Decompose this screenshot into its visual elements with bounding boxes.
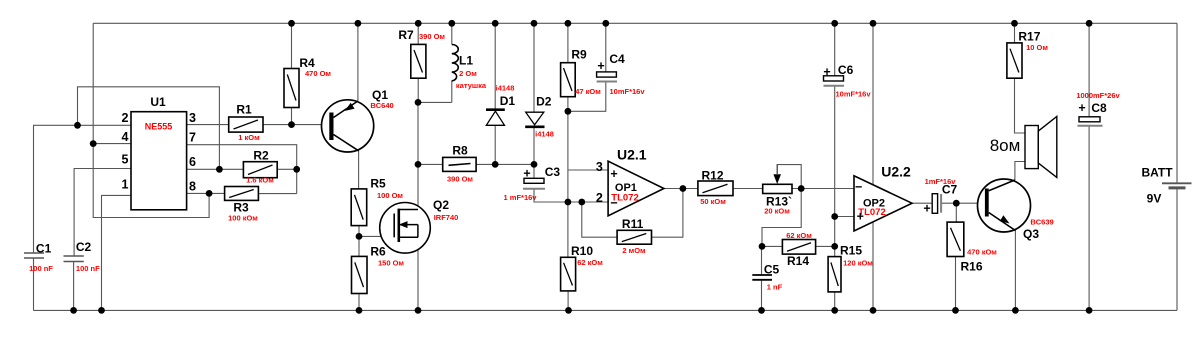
capacitor C4 [597, 72, 617, 82]
junction D2 C3 [531, 161, 538, 168]
resistor R3 [225, 187, 259, 201]
junction R7 top [415, 20, 422, 27]
resistor R6 [352, 256, 368, 293]
svg-text:100 nF: 100 nF [29, 264, 53, 273]
wire R9 vertical chain [567, 23, 569, 257]
svg-text:1000mF*26v: 1000mF*26v [1076, 91, 1120, 100]
junction R7 L1 bottom [415, 99, 422, 106]
wire C6 to plus input to R15 [835, 23, 854, 256]
junction R4 top [288, 20, 295, 27]
svg-text:U2.1: U2.1 [617, 147, 647, 163]
wire pin3 to R1 to Q1 base [187, 124, 331, 126]
junction R15 ground [831, 307, 838, 314]
speaker 8 ohm [1025, 116, 1057, 177]
wire R17 leads to speaker [1015, 23, 1026, 133]
svg-text:2: 2 [596, 191, 603, 205]
wire R13 down to R14 [762, 189, 801, 247]
op-amp U2.2 OP2 [854, 176, 912, 231]
svg-text:+: + [610, 167, 617, 181]
svg-text:R8: R8 [452, 144, 468, 158]
svg-text:+: + [823, 65, 830, 79]
svg-text:5: 5 [122, 153, 129, 167]
wire Q2 drain chain [417, 102, 419, 209]
svg-text:BC640: BC640 [370, 101, 393, 110]
svg-text:47 кОм: 47 кОм [575, 87, 601, 96]
svg-text:+: + [523, 167, 530, 181]
svg-text:+: + [923, 202, 930, 216]
svg-text:R1: R1 [236, 103, 252, 117]
wire Q1 emitter to rail [357, 23, 359, 101]
junction supply top [870, 20, 877, 27]
svg-text:9V: 9V [1147, 192, 1162, 206]
wire C1 branch and U1 pin2 line [34, 125, 132, 310]
svg-text:50 кОм: 50 кОм [700, 197, 726, 206]
junction Q1 emitter top [355, 20, 362, 27]
svg-text:U1: U1 [150, 95, 166, 109]
svg-text:1 mF*16v: 1 mF*16v [504, 193, 538, 202]
wire L1 leads [418, 23, 452, 102]
resistor R9 [561, 63, 576, 97]
junction pin6 tie [216, 166, 223, 173]
svg-text:R3: R3 [233, 201, 249, 215]
potentiometer R13 [763, 165, 792, 194]
junction R14 R15 [831, 243, 838, 250]
svg-text:3: 3 [596, 160, 603, 174]
wire right branch to battery [1176, 23, 1178, 310]
capacitor C5 [752, 275, 772, 280]
svg-text:150 Ом: 150 Ом [378, 259, 404, 268]
junction C6 top [831, 20, 838, 27]
wire R6 to ground [358, 294, 360, 311]
svg-text:NE555: NE555 [145, 122, 173, 132]
IC U1 NE555 body [131, 112, 187, 210]
wire Q2 source to ground [417, 237, 419, 310]
svg-text:10mF*16v: 10mF*16v [835, 90, 871, 99]
svg-text:7: 7 [189, 130, 196, 144]
wire pin6 stub [187, 168, 244, 170]
svg-text:C2: C2 [76, 240, 92, 254]
svg-text:1mF*16v: 1mF*16v [925, 177, 957, 186]
svg-text:8ом: 8ом [990, 136, 1021, 155]
svg-text:Q3: Q3 [1023, 227, 1039, 241]
junction C8 top [1086, 20, 1093, 27]
wire R14 leads [762, 245, 835, 247]
svg-text:+: + [1078, 101, 1085, 115]
wire pin8 stub [187, 192, 225, 194]
svg-text:62 кОм: 62 кОм [577, 258, 603, 267]
junction R6 ground [356, 307, 363, 314]
capacitor C3 [523, 178, 545, 189]
svg-text:IRF740: IRF740 [434, 213, 459, 222]
svg-text:U2.2: U2.2 [881, 164, 911, 180]
svg-text:Q1: Q1 [372, 88, 388, 102]
svg-text:R4: R4 [299, 56, 315, 70]
op-amp U2.1 OP1 [608, 161, 664, 216]
svg-text:10mF*16v: 10mF*16v [609, 87, 645, 96]
wire R8 leads [418, 163, 534, 165]
junction Q2 source ground [415, 307, 422, 314]
wire C3 leads and U2.1 pin2 line [534, 164, 608, 202]
wire pin2 to pin6 tie route [78, 87, 220, 170]
resistor R12 [698, 181, 733, 196]
junction R9 top [565, 20, 572, 27]
junction U2.2 plus input [831, 213, 838, 220]
svg-text:R9: R9 [571, 48, 587, 62]
junction D1 bottom [492, 161, 499, 168]
junction R10 ground [565, 307, 572, 314]
junction pin2 tie [74, 122, 81, 129]
svg-text:BATT: BATT [1141, 166, 1173, 180]
resistor R16 [947, 222, 964, 256]
svg-text:R6: R6 [370, 245, 386, 259]
resistor R1 [229, 117, 263, 132]
svg-text:+: + [597, 59, 604, 73]
svg-text:20 кОм: 20 кОм [764, 207, 790, 216]
transistor Q2 IRF740 [380, 203, 431, 254]
diode D1 i4148 [486, 110, 505, 126]
svg-text:1: 1 [122, 178, 129, 192]
junction C5 ground [758, 307, 765, 314]
svg-text:10 Ом: 10 Ом [1026, 43, 1048, 52]
junction Q3 emitter ground [1012, 307, 1019, 314]
svg-text:C8: C8 [1091, 101, 1107, 115]
svg-text:R10: R10 [571, 244, 593, 258]
wire R16 leads [955, 203, 958, 310]
junction C8 ground [1086, 307, 1093, 314]
wire R7 leads [417, 23, 419, 102]
wire Q1 collector to R5 [358, 151, 360, 189]
svg-text:8: 8 [189, 180, 196, 194]
junction D2 top [531, 20, 538, 27]
svg-text:−: − [855, 180, 862, 194]
svg-text:100 кОм: 100 кОм [228, 214, 258, 223]
junction D1 top [492, 20, 499, 27]
wire pin1 to ground [102, 195, 132, 310]
svg-text:R15: R15 [840, 244, 862, 258]
svg-text:D2: D2 [536, 95, 552, 109]
wire Q3 emitter to ground [1014, 230, 1016, 310]
wire U2.1 pin3 [568, 169, 608, 171]
junction R10 pin2 [565, 199, 572, 206]
junction R16 ground [952, 307, 959, 314]
junction R13 wiper [798, 185, 805, 192]
diode D2 i4148 [525, 112, 544, 127]
junction pin4 [90, 140, 97, 147]
resistor R14 [782, 240, 815, 255]
transistor Q1 BC640 [322, 100, 374, 152]
svg-text:4: 4 [122, 130, 129, 144]
wire U2.1 output to R12 to R13 [664, 188, 762, 190]
junction L1 top [448, 20, 455, 27]
svg-text:R7: R7 [398, 28, 414, 42]
junction R17 top [1011, 20, 1018, 27]
wire C8 leads [1088, 23, 1090, 310]
wire D2 leads [533, 23, 535, 164]
junction C7 R16 [953, 200, 960, 207]
svg-text:i4148: i4148 [535, 130, 554, 139]
resistor R8 [443, 157, 476, 171]
junction R9 C4 [565, 108, 572, 115]
wire R4 leads [291, 23, 293, 124]
svg-text:C6: C6 [838, 63, 854, 77]
svg-text:R2: R2 [253, 149, 269, 163]
svg-text:+: + [857, 210, 864, 224]
wire C5 leads [761, 246, 763, 310]
svg-text:катушка: катушка [456, 81, 487, 90]
svg-text:1 nF: 1 nF [767, 283, 783, 292]
wire R13 wiper route [777, 165, 801, 189]
junction U2.1 output [680, 185, 687, 192]
wire C4 bottom link [568, 23, 606, 111]
junction R8 left [415, 161, 422, 168]
resistor R11 [617, 230, 651, 244]
svg-text:i4148: i4148 [496, 84, 515, 93]
wire R3 right lead [258, 193, 296, 195]
svg-text:R14: R14 [787, 254, 809, 268]
wire U2.2 supply line [872, 23, 874, 310]
svg-text:100 Ом: 100 Ом [377, 191, 403, 200]
wire ground bottom rail [34, 309, 1178, 311]
capacitor C7 [932, 194, 941, 214]
wire R5 to R6 and gate of Q2 [359, 226, 394, 257]
wire pin7 route down [187, 145, 297, 194]
svg-text:C3: C3 [545, 165, 561, 179]
svg-text:390 Ом: 390 Ом [419, 32, 445, 41]
battery BATT 9V [1162, 183, 1192, 188]
capacitor C2 [64, 256, 84, 262]
junction supply ground [870, 307, 877, 314]
resistor R4 [284, 69, 299, 108]
svg-text:−: − [610, 196, 617, 210]
svg-text:R11: R11 [622, 217, 644, 231]
svg-text:100 nF: 100 nF [76, 264, 100, 273]
svg-text:6: 6 [189, 155, 196, 169]
svg-text:470 кОм: 470 кОм [967, 248, 997, 257]
svg-text:390 Ом: 390 Ом [447, 175, 473, 184]
wire R15 to ground [834, 292, 836, 311]
svg-text:C1: C1 [36, 242, 52, 256]
wire D1 leads [494, 23, 496, 164]
wire +9V top rail [93, 22, 1177, 24]
svg-text:62 кОм: 62 кОм [786, 231, 812, 240]
wire R10 to ground [567, 291, 569, 311]
svg-text:C5: C5 [764, 263, 780, 277]
svg-text:R12: R12 [701, 169, 723, 183]
svg-text:3: 3 [189, 111, 196, 125]
svg-text:Q2: Q2 [433, 198, 449, 212]
svg-text:BC639: BC639 [1030, 218, 1053, 227]
svg-text:R17: R17 [1018, 30, 1040, 44]
junction R4 bottom base [288, 121, 295, 128]
svg-text:1.6 кОм: 1.6 кОм [246, 176, 274, 185]
capacitor C8 [1078, 117, 1103, 126]
wire V+ to pin4 and pin8 route [93, 23, 209, 217]
svg-text:120 кОм: 120 кОм [843, 259, 873, 268]
capacitor C1 [24, 253, 44, 258]
svg-text:C4: C4 [609, 52, 625, 66]
svg-text:R16: R16 [960, 260, 982, 274]
svg-text:L1: L1 [459, 54, 473, 68]
junction C5 R14 [759, 243, 766, 250]
wire feedback via R11 [582, 189, 683, 238]
junction pin1 ground [98, 307, 105, 314]
svg-text:R5: R5 [370, 177, 386, 191]
inductor L1 [452, 45, 459, 82]
svg-text:2 мОм: 2 мОм [622, 246, 646, 255]
junction feedback tap [578, 199, 585, 206]
resistor R15 [828, 257, 841, 292]
resistor R10 [561, 257, 576, 291]
svg-text:2: 2 [122, 111, 129, 125]
capacitor C6 [824, 76, 845, 86]
svg-text:2 Ом: 2 Ом [459, 69, 477, 78]
transistor Q3 BC639 [978, 179, 1031, 232]
svg-text:D1: D1 [500, 94, 516, 108]
svg-text:470 Ом: 470 Ом [305, 69, 331, 78]
wire U2.2 output via C7 [912, 202, 978, 204]
resistor R7 [411, 44, 426, 78]
resistor R5 [351, 189, 367, 226]
wire R2 right lead [277, 168, 297, 170]
resistor R17 [1007, 43, 1022, 78]
junction pin8 [206, 190, 213, 197]
junction R2 right [293, 166, 300, 173]
junction R5 R6 gate [356, 233, 363, 240]
wire R13 to U2.2 minus input [792, 188, 854, 190]
wire pin5 to C2 [74, 169, 131, 311]
wire Q3 collector to speaker [1015, 162, 1025, 181]
resistor R2 [243, 162, 277, 178]
svg-text:1 кОм: 1 кОм [238, 133, 260, 142]
junction C2 ground [70, 307, 77, 314]
junction C4 top [602, 20, 609, 27]
